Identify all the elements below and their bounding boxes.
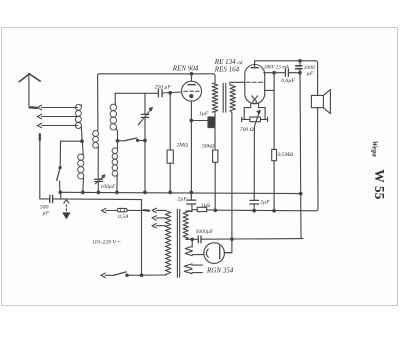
wire [116, 175, 118, 192]
wire wiper down [253, 127, 255, 211]
svg-text:700 Ω: 700 Ω [240, 127, 254, 133]
wire [82, 178, 85, 193]
svg-text:0,5A: 0,5A [118, 214, 129, 220]
tuning capacitor C2 [144, 93, 146, 192]
earth stub [60, 193, 62, 200]
capacitor 1uF [191, 120, 208, 122]
node [116, 140, 119, 143]
wire tap1 [42, 107, 78, 109]
svg-text:µF: µF [43, 211, 50, 217]
svg-text:RGN 354: RGN 354 [206, 267, 234, 275]
transformer interstage primary [212, 83, 217, 112]
wire [40, 140, 49, 199]
svg-text:0,5MΩ: 0,5MΩ [278, 152, 294, 158]
node [299, 192, 302, 195]
capacitor 0,6uF [285, 69, 288, 76]
antenna [19, 74, 40, 82]
wire [163, 92, 182, 93]
wire plate lead [191, 74, 193, 81]
plate bus top [100, 74, 215, 83]
ground symbol [64, 200, 69, 203]
resistor 0,5MOhm [273, 73, 275, 211]
wire mains riser [141, 200, 143, 276]
coil L4 reaction [93, 131, 99, 149]
rectifier tube RGN354 [204, 243, 225, 264]
wire to mains corner [53, 198, 141, 201]
svg-text:W 55: W 55 [372, 169, 387, 199]
node plate [190, 73, 193, 76]
coil L1b [78, 154, 84, 179]
resistor 50kOhm [214, 112, 216, 210]
wire to switch [61, 140, 83, 142]
op tube REN904 [182, 81, 202, 101]
top bus B+ [255, 61, 318, 96]
transformer HT secondary [183, 212, 188, 239]
svg-text:100µF: 100µF [100, 184, 116, 190]
HT line [186, 238, 301, 241]
capacitor 250uF grid [158, 89, 162, 96]
resistor 1kOhm [192, 209, 215, 211]
switch S2 wave change [118, 140, 125, 142]
svg-text:50kΩ: 50kΩ [202, 143, 214, 149]
wire cathode [190, 101, 192, 192]
node [97, 191, 100, 194]
antenna earth terminal [39, 134, 41, 140]
wire [81, 105, 83, 156]
switch S3 mains [113, 272, 126, 276]
svg-text:5000µF: 5000µF [196, 229, 214, 235]
capacitor 1000uF electrolytic [296, 66, 302, 69]
switch S1 [59, 141, 61, 167]
capacitor 2uF bias [250, 200, 259, 204]
fuse line mains [102, 208, 106, 212]
ground bus [60, 192, 301, 193]
coil L1a antenna coil [75, 104, 81, 128]
capacitor 2uF cathode [187, 193, 196, 205]
transformer power primary [165, 211, 170, 276]
wire cathode stub RE134 [265, 89, 275, 91]
coil L3 [117, 141, 119, 149]
capacitor 5000uF [198, 236, 201, 243]
mains line 2 [101, 273, 105, 277]
antenna tap plug arrows [37, 105, 41, 127]
svg-text:REN 904: REN 904 [172, 65, 199, 73]
wire tap3 [42, 125, 78, 127]
svg-text:Wega: Wega [371, 141, 379, 158]
reaction feed line [98, 74, 100, 131]
node grid tap [169, 92, 172, 95]
wire [97, 147, 99, 179]
filament winding W4 [184, 264, 192, 274]
svg-text:2µF: 2µF [260, 199, 270, 205]
node [116, 191, 119, 194]
svg-text:1kΩ: 1kΩ [201, 203, 210, 209]
svg-text:2MΩ: 2MΩ [177, 142, 189, 148]
resistor 2MOhm [169, 93, 171, 193]
node tap junction [81, 140, 84, 143]
plug arrows transformer taps [152, 208, 156, 228]
svg-text:µF: µF [307, 71, 314, 77]
node [144, 139, 147, 142]
svg-text:2µF: 2µF [177, 197, 187, 203]
resistor 700 Ohm [250, 117, 261, 122]
antenna terminal plug [30, 106, 37, 109]
output tube RE134 [245, 65, 265, 104]
wire [97, 182, 99, 193]
svg-text:1µF: 1µF [199, 111, 209, 117]
node [59, 191, 62, 194]
wire [116, 129, 118, 141]
transformer interstage core [223, 83, 226, 112]
wire secondary bottom long [224, 111, 232, 253]
node [82, 191, 85, 194]
svg-text:180V 13 mA: 180V 13 mA [264, 64, 290, 70]
coil L2 grid coil [114, 93, 116, 105]
capacitor variable 100uF reaction [95, 179, 103, 181]
wire grid line [115, 92, 158, 94]
svg-text:110–220 V∼: 110–220 V∼ [92, 240, 121, 246]
transformer power core [177, 209, 179, 277]
fuse 0,5A [117, 208, 127, 211]
svg-text:RES 164: RES 164 [214, 65, 240, 73]
plug dash [144, 209, 149, 212]
wire tap2 [42, 116, 78, 118]
filament winding W3 [185, 246, 192, 255]
svg-text:250 µF: 250 µF [155, 85, 172, 91]
svg-text:0,6µF: 0,6µF [281, 78, 295, 84]
wire secondary top to grid [230, 82, 245, 85]
transformer interstage secondary [230, 85, 235, 111]
capacitor 500uF [50, 195, 53, 202]
speaker [311, 95, 323, 107]
bus mid [215, 209, 316, 212]
hum pot network [244, 104, 265, 120]
wire anode line [264, 72, 300, 74]
